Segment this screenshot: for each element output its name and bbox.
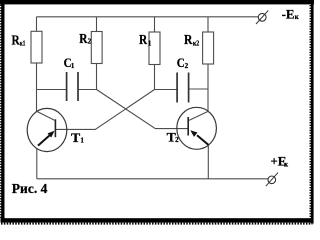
svg-text:к: к	[295, 13, 300, 21]
svg-text:R: R	[139, 32, 147, 47]
svg-text:R: R	[184, 32, 193, 47]
svg-text:R: R	[12, 32, 20, 47]
svg-text:к2: к2	[193, 39, 200, 47]
svg-text:R: R	[79, 31, 87, 46]
svg-text:Рис. 4: Рис. 4	[12, 181, 48, 196]
svg-text:к: к	[284, 160, 289, 168]
svg-text:1: 1	[148, 39, 152, 47]
svg-text:1: 1	[80, 137, 84, 145]
svg-text:-E: -E	[282, 6, 295, 21]
svg-text:2: 2	[185, 62, 189, 70]
svg-text:к1: к1	[20, 39, 26, 47]
svg-text:1: 1	[71, 62, 75, 70]
svg-text:C: C	[177, 55, 185, 70]
svg-text:Т: Т	[71, 130, 81, 145]
svg-text:2: 2	[88, 38, 92, 46]
svg-text:2: 2	[175, 136, 179, 144]
